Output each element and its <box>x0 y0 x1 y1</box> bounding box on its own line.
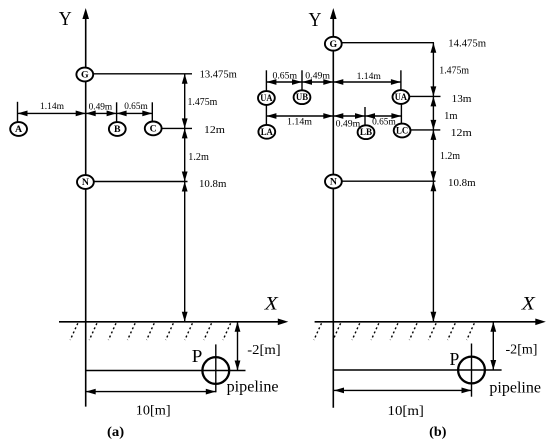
tick above C (a) <box>151 102 153 122</box>
conductor G (b) <box>325 37 342 51</box>
svg-text:(b): (b) <box>429 425 447 440</box>
dimension 0.65m (a) <box>117 112 153 114</box>
wire G level (b) <box>342 42 434 44</box>
vertical dimension 10.8m (a) <box>184 182 186 322</box>
svg-text:1.475m: 1.475m <box>188 97 218 108</box>
conductor A (a) <box>10 122 27 136</box>
pipeline depth line (b) <box>334 369 502 371</box>
ground hatching (b) <box>314 323 322 340</box>
svg-text:UA: UA <box>395 92 408 102</box>
wire N level (b) <box>342 180 436 182</box>
svg-text:N: N <box>82 177 89 188</box>
svg-text:13m: 13m <box>452 94 472 105</box>
dimension 0.65m upper (b) <box>266 81 302 83</box>
wire 12m level (a) <box>161 127 192 129</box>
svg-text:pipeline: pipeline <box>489 380 541 397</box>
svg-text:13.475m: 13.475m <box>200 70 237 81</box>
svg-text:LB: LB <box>360 127 372 137</box>
svg-text:P: P <box>192 346 203 366</box>
Y axis (a) <box>85 16 87 407</box>
tick above UB (b) <box>301 70 303 91</box>
svg-text:G: G <box>81 70 89 81</box>
svg-text:G: G <box>329 39 337 50</box>
svg-text:LC: LC <box>396 125 408 135</box>
svg-text:1.2m: 1.2m <box>440 151 460 162</box>
wire UA-LA (b) <box>265 105 267 126</box>
dimension 0.49m (a) <box>86 112 117 114</box>
ground hatching (a) <box>70 323 78 340</box>
dimension 1.14m (a) <box>18 112 86 114</box>
dimension 0.49m upper (b) <box>302 81 333 83</box>
svg-text:10.8m: 10.8m <box>448 178 476 189</box>
svg-text:1.14m: 1.14m <box>357 71 382 82</box>
svg-text:1.14m: 1.14m <box>40 101 64 112</box>
dimension 10m (b) <box>334 389 472 391</box>
conductor G (a) <box>76 68 93 82</box>
svg-text:-2[m]: -2[m] <box>506 342 538 357</box>
svg-text:10.8m: 10.8m <box>199 179 226 190</box>
vertical dimension 1m (b) <box>432 96 434 129</box>
wire N level (a) <box>94 181 188 183</box>
wire G level (a) <box>94 73 193 75</box>
conductor LB (b) <box>358 125 375 139</box>
svg-text:14.475m: 14.475m <box>448 39 486 50</box>
svg-text:pipeline: pipeline <box>227 379 279 396</box>
pipeline depth line (a) <box>86 370 246 372</box>
svg-text:1.475m: 1.475m <box>439 66 469 77</box>
wire UA-LC (b) <box>400 104 402 125</box>
svg-text:1m: 1m <box>444 111 457 122</box>
conductor UA left (b) <box>258 91 275 105</box>
svg-text:X: X <box>521 294 537 315</box>
svg-text:A: A <box>15 124 22 135</box>
pipeline circle P (a) <box>202 357 229 384</box>
tick above LB (b) <box>364 107 366 126</box>
svg-text:0.49m: 0.49m <box>89 101 113 112</box>
svg-text:B: B <box>114 124 121 135</box>
tick above UA right (b) <box>400 70 402 90</box>
svg-text:C: C <box>150 124 157 135</box>
X axis (a) <box>59 321 280 323</box>
pipeline vertical line (a) <box>215 344 217 392</box>
dimension 0.49m lower (b) <box>333 115 365 117</box>
svg-text:N: N <box>330 177 337 188</box>
svg-text:LA: LA <box>261 127 274 137</box>
wire 12m level (b) <box>410 129 441 131</box>
svg-text:UB: UB <box>296 92 308 102</box>
vertical dimension 1.475m (a) <box>184 74 186 129</box>
wire 13m level (b) <box>409 95 440 97</box>
conductor UA right (b) <box>393 90 410 104</box>
tick above A (a) <box>17 102 19 123</box>
svg-text:P: P <box>450 349 460 369</box>
conductor N (b) <box>325 175 342 189</box>
pipeline circle P (b) <box>458 357 485 384</box>
svg-text:0.49m: 0.49m <box>336 119 361 130</box>
tick above UA (b) <box>265 70 267 91</box>
dimension 10m (a) <box>86 391 216 393</box>
conductor N (a) <box>77 175 94 189</box>
Y axis (b) <box>332 16 334 408</box>
svg-text:12m: 12m <box>204 125 225 136</box>
svg-text:0.65m: 0.65m <box>372 117 396 128</box>
svg-text:Y: Y <box>309 9 322 31</box>
svg-text:0.65m: 0.65m <box>124 101 148 112</box>
dimension -2m (a) <box>237 322 239 371</box>
pipeline vertical line (b) <box>471 344 473 397</box>
svg-text:(a): (a) <box>107 425 125 440</box>
svg-text:1.14m: 1.14m <box>287 117 312 128</box>
svg-text:10[m]: 10[m] <box>388 403 424 418</box>
tick above B (a) <box>116 102 118 122</box>
conductor B (a) <box>109 122 126 136</box>
dimension 1.14m upper (b) <box>333 81 401 83</box>
svg-text:-2[m]: -2[m] <box>247 343 280 358</box>
svg-text:0.49m: 0.49m <box>305 71 330 82</box>
conductor C (a) <box>145 121 162 135</box>
conductor LC (b) <box>394 124 411 138</box>
vertical dimension 1.2m (b) <box>432 130 434 181</box>
svg-text:X: X <box>264 294 280 315</box>
dimension 1.14m lower (b) <box>266 115 333 117</box>
vertical dimension 10.8m (b) <box>432 181 434 322</box>
vertical dimension 1.2m (a) <box>184 128 186 181</box>
svg-text:10[m]: 10[m] <box>136 403 171 418</box>
svg-text:1.2m: 1.2m <box>188 152 209 163</box>
svg-text:Y: Y <box>59 8 72 30</box>
svg-text:0.65m: 0.65m <box>273 71 298 82</box>
conductor LA (b) <box>258 125 275 139</box>
svg-text:UA: UA <box>260 93 273 103</box>
conductor UB (b) <box>294 90 311 104</box>
vertical dimension 1.475m (b) <box>432 43 434 97</box>
svg-text:12m: 12m <box>451 128 472 139</box>
dimension -2m (b) <box>492 322 494 370</box>
dimension 0.65m lower (b) <box>365 115 401 117</box>
X axis (b) <box>315 321 538 323</box>
